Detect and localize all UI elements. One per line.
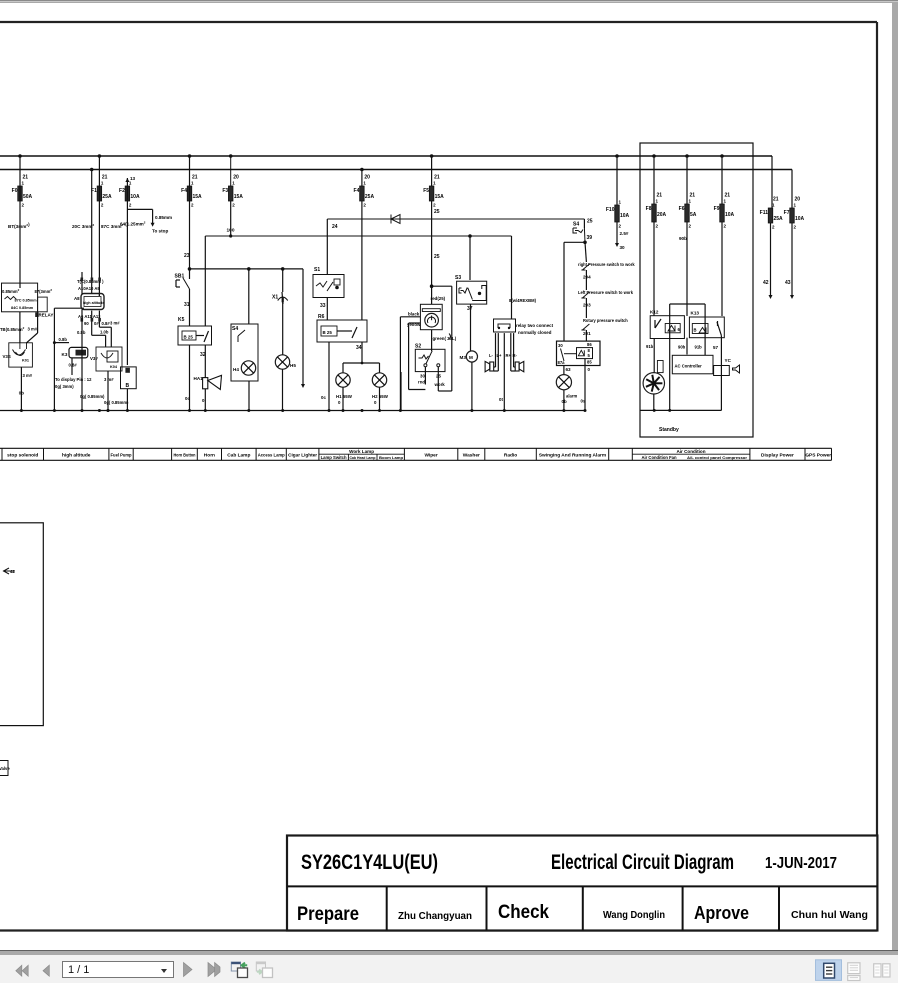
svg-text:1: 1 bbox=[129, 181, 132, 186]
svg-text:50A: 50A bbox=[23, 194, 33, 200]
svg-text:24: 24 bbox=[332, 224, 338, 230]
svg-text:10A: 10A bbox=[620, 213, 630, 219]
svg-text:0c: 0c bbox=[321, 395, 326, 400]
svg-text:H5: H5 bbox=[290, 363, 296, 368]
svg-text:30: 30 bbox=[620, 245, 626, 250]
svg-text:25: 25 bbox=[436, 374, 441, 379]
svg-text:0s: 0s bbox=[581, 399, 586, 404]
svg-text:R-: R- bbox=[513, 353, 518, 358]
svg-text:S3: S3 bbox=[455, 275, 461, 281]
svg-text:Chun hul Wang: Chun hul Wang bbox=[791, 909, 868, 921]
svg-text:K13: K13 bbox=[691, 311, 700, 316]
svg-text:H2 55W: H2 55W bbox=[372, 394, 389, 399]
svg-text:green( 35L): green( 35L) bbox=[433, 336, 457, 341]
svg-text:1: 1 bbox=[363, 181, 366, 186]
svg-text:20C 3mm2: 20C 3mm2 bbox=[72, 223, 94, 229]
svg-text:2: 2 bbox=[724, 224, 727, 229]
svg-text:B 25: B 25 bbox=[323, 330, 333, 335]
svg-text:F0: F0 bbox=[12, 188, 18, 194]
svg-text:32: 32 bbox=[200, 352, 206, 358]
svg-text:B: B bbox=[126, 383, 130, 389]
svg-text:25A: 25A bbox=[365, 194, 375, 200]
svg-text:2: 2 bbox=[656, 224, 659, 229]
svg-text:K12: K12 bbox=[650, 310, 659, 315]
svg-text:TB(0.85mm2: TB(0.85mm2 bbox=[0, 326, 25, 332]
svg-text:AC Controller: AC Controller bbox=[675, 364, 703, 369]
svg-text:A8: A8 bbox=[74, 296, 80, 301]
svg-text:Fuel Pump: Fuel Pump bbox=[111, 452, 132, 458]
svg-text:91b: 91b bbox=[695, 345, 703, 350]
svg-text:0c: 0c bbox=[185, 396, 190, 401]
svg-text:2: 2 bbox=[363, 203, 366, 208]
svg-text:L+: L+ bbox=[497, 353, 503, 358]
svg-text:normally closed: normally closed bbox=[518, 330, 552, 335]
svg-text:A/L control panel Compressor: A/L control panel Compressor bbox=[687, 455, 747, 460]
svg-text:F7: F7 bbox=[784, 210, 790, 216]
svg-text:S2: S2 bbox=[415, 344, 421, 350]
svg-text:1: 1 bbox=[433, 181, 436, 186]
svg-text:2: 2 bbox=[22, 203, 25, 208]
svg-text:F4: F4 bbox=[354, 188, 360, 194]
svg-text:K5: K5 bbox=[178, 317, 185, 323]
svg-text:R6: R6 bbox=[318, 314, 325, 320]
svg-text:25: 25 bbox=[434, 209, 440, 215]
svg-text:rnd: rnd bbox=[418, 380, 425, 385]
svg-text:BT(3mm2): BT(3mm2) bbox=[8, 222, 30, 229]
svg-text:2: 2 bbox=[772, 225, 775, 230]
svg-text:25A: 25A bbox=[102, 194, 112, 200]
svg-text:M3: M3 bbox=[460, 355, 467, 360]
svg-text:relay two connect: relay two connect bbox=[516, 323, 554, 328]
svg-text:Air Condition: Air Condition bbox=[676, 449, 705, 454]
svg-text:F6: F6 bbox=[679, 206, 685, 212]
svg-text:K3: K3 bbox=[62, 352, 68, 357]
svg-text:0g( 0.85mm): 0g( 0.85mm) bbox=[80, 394, 105, 399]
svg-text:31: 31 bbox=[184, 302, 190, 308]
svg-text:Swinging And Running Alarm: Swinging And Running Alarm bbox=[539, 452, 606, 458]
svg-text:0#: 0# bbox=[94, 321, 99, 326]
svg-text:0g( 0.85mm): 0g( 0.85mm) bbox=[104, 400, 129, 405]
svg-text:F5: F5 bbox=[423, 188, 429, 194]
svg-text:stop solenoid: stop solenoid bbox=[7, 452, 38, 458]
svg-text:87a: 87a bbox=[558, 360, 566, 365]
svg-text:39: 39 bbox=[587, 235, 593, 241]
svg-text:F3: F3 bbox=[222, 188, 228, 194]
svg-text:0b: 0b bbox=[562, 399, 567, 404]
svg-text:0t: 0t bbox=[499, 397, 503, 402]
svg-text:87C 0.85mm: 87C 0.85mm bbox=[15, 299, 38, 303]
svg-text:high altitude: high altitude bbox=[83, 301, 104, 305]
svg-text:90: 90 bbox=[84, 321, 89, 326]
svg-text:20A: 20A bbox=[657, 212, 667, 218]
svg-text:1: 1 bbox=[656, 199, 659, 204]
svg-text:H1 55W: H1 55W bbox=[336, 394, 353, 399]
svg-text:Washer: Washer bbox=[463, 452, 480, 458]
svg-text:25: 25 bbox=[434, 254, 440, 260]
svg-text:86: 86 bbox=[587, 342, 592, 347]
svg-text:Cigar Lighter: Cigar Lighter bbox=[288, 452, 317, 458]
svg-text:43: 43 bbox=[785, 280, 791, 286]
svg-text:S1: S1 bbox=[314, 267, 320, 273]
svg-text:2: 2 bbox=[433, 203, 436, 208]
svg-text:1: 1 bbox=[724, 199, 727, 204]
svg-text:RELAY: RELAY bbox=[39, 313, 54, 318]
svg-text:57: 57 bbox=[713, 345, 719, 350]
svg-text:2: 2 bbox=[619, 224, 622, 229]
svg-text:1: 1 bbox=[794, 203, 797, 208]
svg-text:15A: 15A bbox=[435, 194, 445, 200]
svg-text:1: 1 bbox=[101, 181, 104, 186]
svg-text:1: 1 bbox=[619, 200, 622, 205]
svg-text:23: 23 bbox=[184, 253, 190, 259]
svg-text:Valve: Valve bbox=[0, 766, 10, 771]
svg-text:201: 201 bbox=[583, 331, 591, 336]
svg-text:2: 2 bbox=[794, 225, 797, 230]
svg-text:red(25): red(25) bbox=[431, 296, 446, 301]
svg-text:S4: S4 bbox=[573, 222, 579, 228]
svg-text:25A: 25A bbox=[774, 216, 784, 222]
svg-text:0b: 0b bbox=[19, 391, 24, 396]
svg-text:2: 2 bbox=[191, 203, 194, 208]
svg-text:Rotary pressure switch: Rotary pressure switch bbox=[583, 318, 628, 323]
svg-text:black: black bbox=[408, 312, 420, 317]
svg-text:Standby: Standby bbox=[659, 427, 679, 433]
svg-text:work: work bbox=[434, 382, 446, 387]
svg-text:63: 63 bbox=[566, 367, 572, 372]
svg-text:2: 2 bbox=[689, 224, 692, 229]
svg-text:2: 2 bbox=[232, 203, 235, 208]
svg-text:64(1.25mm2: 64(1.25mm2 bbox=[120, 221, 146, 227]
svg-text:Access Lamp: Access Lamp bbox=[258, 452, 285, 458]
svg-text:Cab Head Lamp: Cab Head Lamp bbox=[350, 455, 376, 460]
svg-text:Wang Donglin: Wang Donglin bbox=[603, 909, 665, 921]
svg-text:90b: 90b bbox=[678, 345, 686, 350]
svg-text:15A: 15A bbox=[193, 194, 203, 200]
svg-text:F11: F11 bbox=[760, 210, 769, 216]
svg-text:B 25: B 25 bbox=[184, 335, 194, 340]
svg-text:Horn: Horn bbox=[204, 452, 215, 458]
svg-text:Radio: Radio bbox=[504, 452, 517, 458]
svg-text:SY26C1Y4LU(EU): SY26C1Y4LU(EU) bbox=[301, 850, 438, 874]
svg-text:F9: F9 bbox=[714, 206, 720, 212]
svg-text:10A: 10A bbox=[795, 216, 805, 222]
svg-text:Zhu Changyuan: Zhu Changyuan bbox=[398, 910, 472, 922]
svg-text:2: 2 bbox=[129, 203, 132, 208]
svg-text:2: 2 bbox=[101, 203, 104, 208]
svg-text:0: 0 bbox=[588, 367, 591, 372]
svg-text:K01: K01 bbox=[22, 359, 29, 363]
svg-text:90b: 90b bbox=[679, 236, 687, 241]
svg-text:0: 0 bbox=[338, 400, 341, 405]
svg-text:10A: 10A bbox=[725, 212, 735, 218]
svg-text:25: 25 bbox=[587, 219, 593, 225]
svg-text:85: 85 bbox=[587, 360, 592, 365]
svg-text:V3S: V3S bbox=[3, 354, 11, 359]
svg-text:S4: S4 bbox=[232, 326, 238, 332]
svg-text:alarm: alarm bbox=[566, 394, 577, 399]
svg-text:0g( 3mm): 0g( 3mm) bbox=[55, 384, 74, 389]
svg-text:13: 13 bbox=[130, 176, 136, 181]
svg-text:Boom Lamp: Boom Lamp bbox=[379, 455, 404, 460]
svg-text:2.5#: 2.5# bbox=[620, 231, 629, 236]
svg-text:0.8b: 0.8b bbox=[59, 337, 68, 342]
svg-text:F8: F8 bbox=[646, 206, 652, 212]
svg-text:Electrical Circuit Diagram: Electrical Circuit Diagram bbox=[551, 851, 734, 874]
svg-text:34: 34 bbox=[356, 345, 362, 351]
svg-text:42: 42 bbox=[763, 280, 769, 286]
svg-text:To display Pin : 12: To display Pin : 12 bbox=[55, 377, 92, 382]
svg-text:1: 1 bbox=[232, 181, 235, 186]
svg-text:3 m#: 3 m# bbox=[23, 373, 33, 378]
svg-text:0: 0 bbox=[202, 398, 205, 403]
svg-text:84C 0.85mm: 84C 0.85mm bbox=[11, 306, 34, 310]
svg-text:3 m#: 3 m# bbox=[104, 377, 114, 382]
svg-text:L-: L- bbox=[489, 353, 494, 358]
svg-text:Lamp Switch: Lamp Switch bbox=[321, 455, 347, 460]
svg-text:K04: K04 bbox=[110, 365, 118, 369]
svg-text:Work Lamp: Work Lamp bbox=[349, 449, 374, 454]
svg-text:X1: X1 bbox=[272, 295, 278, 301]
svg-text:F10: F10 bbox=[606, 207, 615, 213]
svg-text:1.0b: 1.0b bbox=[100, 330, 109, 335]
svg-text:91b: 91b bbox=[646, 344, 654, 349]
svg-text:GPS Power: GPS Power bbox=[805, 452, 831, 458]
svg-text:5: 5 bbox=[588, 353, 591, 358]
svg-text:0.85mm2: 0.85mm2 bbox=[2, 288, 20, 294]
svg-text:33: 33 bbox=[320, 303, 326, 309]
svg-text:To stop: To stop bbox=[152, 229, 168, 234]
svg-text:V3#: V3# bbox=[90, 356, 98, 361]
svg-text:203: 203 bbox=[583, 303, 591, 308]
svg-text:Display Power: Display Power bbox=[761, 452, 794, 458]
svg-text:HA1: HA1 bbox=[194, 376, 204, 381]
svg-text:1: 1 bbox=[689, 199, 692, 204]
svg-text:10A: 10A bbox=[130, 194, 140, 200]
svg-text:3 m#: 3 m# bbox=[28, 327, 38, 332]
svg-text:87(3mm2: 87(3mm2 bbox=[35, 288, 53, 294]
svg-text:F2: F2 bbox=[119, 188, 125, 194]
svg-text:8(w/4REXBM): 8(w/4REXBM) bbox=[509, 298, 537, 303]
svg-text:30: 30 bbox=[558, 343, 563, 348]
svg-text:high altitude: high altitude bbox=[62, 452, 91, 458]
svg-text:0.85mm: 0.85mm bbox=[155, 215, 172, 220]
svg-text:0: 0 bbox=[374, 400, 377, 405]
svg-text:5A: 5A bbox=[690, 212, 697, 218]
svg-text:1: 1 bbox=[191, 181, 194, 186]
svg-text:Horn Button: Horn Button bbox=[173, 452, 195, 458]
svg-text:H4: H4 bbox=[233, 367, 239, 372]
svg-text:Air Condition Fan: Air Condition Fan bbox=[641, 455, 677, 460]
svg-text:15A: 15A bbox=[234, 194, 244, 200]
svg-text:B: B bbox=[694, 328, 697, 333]
svg-text:F4: F4 bbox=[181, 188, 187, 194]
svg-text:A10A10 A9: A10A10 A9 bbox=[78, 286, 100, 291]
svg-text:3 m#: 3 m# bbox=[110, 321, 120, 326]
svg-text:204: 204 bbox=[583, 275, 591, 280]
svg-text:1: 1 bbox=[22, 181, 25, 186]
svg-text:0.8#: 0.8# bbox=[69, 363, 78, 368]
svg-text:M: M bbox=[469, 355, 473, 360]
svg-text:Cab Lamp: Cab Lamp bbox=[227, 452, 250, 458]
svg-text:1-JUN-2017: 1-JUN-2017 bbox=[765, 855, 837, 872]
svg-text:YC: YC bbox=[725, 358, 732, 363]
svg-text:Aprove: Aprove bbox=[694, 902, 749, 923]
svg-text:30: 30 bbox=[420, 374, 425, 379]
svg-text:0.8#: 0.8# bbox=[102, 321, 111, 326]
svg-text:Prepare: Prepare bbox=[297, 904, 359, 925]
svg-text:Wiper: Wiper bbox=[424, 452, 437, 458]
svg-text:42: 42 bbox=[10, 569, 16, 574]
svg-text:Check: Check bbox=[498, 902, 549, 923]
svg-text:R+: R+ bbox=[506, 353, 512, 358]
svg-text:37: 37 bbox=[467, 306, 473, 312]
